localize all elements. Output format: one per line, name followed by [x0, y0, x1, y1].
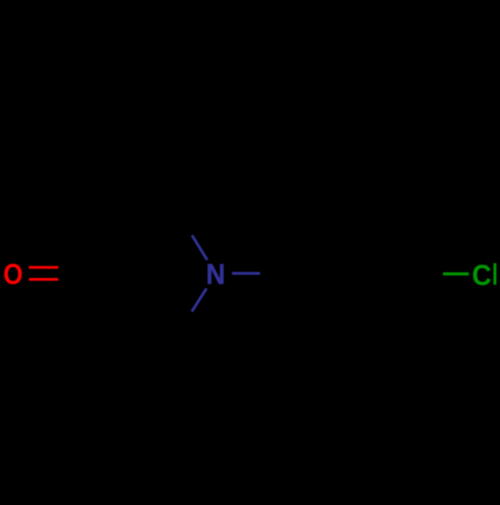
bond N-phenyl horizontal blue half-line — [232, 272, 260, 275]
bond N-C lower-left blue half-line — [192, 289, 207, 312]
bond C=O double bond, lower red half-line — [29, 278, 58, 281]
bond N-C upper-left blue half-line — [192, 235, 207, 260]
bond C-Cl green half-line — [443, 272, 469, 275]
svg-text:O: O — [3, 257, 23, 290]
atom Cl letter l bar — [494, 263, 497, 285]
svg-text:C: C — [472, 259, 491, 291]
bond C=O double bond, upper red half-line — [29, 266, 58, 269]
svg-text:N: N — [206, 258, 225, 290]
